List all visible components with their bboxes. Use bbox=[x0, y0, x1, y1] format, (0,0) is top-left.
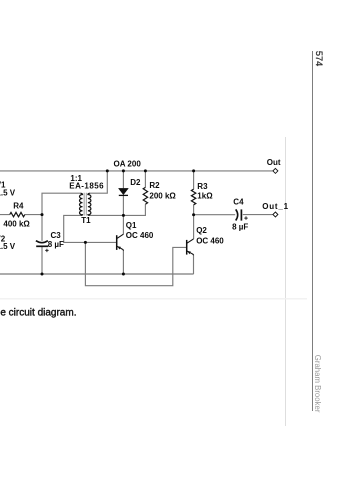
terminal Out bbox=[273, 168, 278, 173]
wire cross coupling to Q2 base bbox=[85, 242, 186, 285]
svg-text:Q2: Q2 bbox=[196, 226, 207, 235]
transistor Q2 bbox=[187, 239, 194, 255]
svg-text:D2: D2 bbox=[130, 178, 141, 187]
wire top rail bbox=[0, 170, 273, 172]
resistor R4 bbox=[10, 212, 25, 216]
svg-text:1.5 V: 1.5 V bbox=[0, 188, 16, 197]
svg-text:C4: C4 bbox=[233, 198, 244, 207]
junction node D2 top bbox=[122, 169, 125, 172]
wire primary bottom to Q1 base bbox=[64, 215, 116, 242]
svg-text:T1: T1 bbox=[81, 216, 91, 225]
resistor R2 bbox=[143, 187, 147, 204]
transistor Q1 bbox=[117, 234, 124, 250]
resistor R3 bbox=[191, 189, 195, 205]
svg-text:OC 460: OC 460 bbox=[196, 237, 224, 246]
faint column edge line bbox=[285, 137, 287, 426]
svg-text:Out_1: Out_1 bbox=[262, 202, 289, 211]
wire primary top link bbox=[42, 193, 81, 214]
capacitor C4 bbox=[236, 209, 248, 220]
wire Q1 emitter lead bbox=[122, 250, 124, 274]
wire C4 leads bbox=[194, 214, 273, 216]
svg-text:400 kΩ: 400 kΩ bbox=[3, 219, 30, 228]
junction node R4/C3 bbox=[41, 213, 44, 216]
svg-text:R4: R4 bbox=[13, 202, 24, 211]
svg-text:1kΩ: 1kΩ bbox=[197, 192, 213, 201]
svg-text:Q1: Q1 bbox=[126, 221, 137, 230]
wire C3 leads bbox=[41, 215, 43, 274]
svg-text:R2: R2 bbox=[149, 181, 160, 190]
junction node C3 bottom bbox=[41, 273, 44, 276]
wire Q2 collector lead bbox=[193, 215, 195, 239]
transformer T1 primary coil bbox=[79, 193, 82, 215]
junction node R3 top bbox=[192, 169, 195, 172]
svg-text:OA 200: OA 200 bbox=[114, 159, 142, 168]
svg-text:the circuit diagram.: the circuit diagram. bbox=[0, 308, 76, 319]
wire secondary top bbox=[90, 171, 108, 193]
wire secondary bottom node bbox=[90, 204, 146, 215]
junction node secondary top bbox=[106, 169, 109, 172]
junction node Q1 emitter rail bbox=[122, 273, 125, 276]
svg-text:1.5 V: 1.5 V bbox=[0, 242, 16, 251]
wire R2 top lead bbox=[144, 171, 146, 188]
terminal Out_1 bbox=[273, 212, 278, 217]
junction node base cross bbox=[84, 241, 87, 244]
wire bottom rail bbox=[0, 273, 194, 275]
wire Q1 collector lead bbox=[122, 215, 124, 234]
svg-text:EA-1856: EA-1856 bbox=[69, 181, 104, 190]
svg-text:200 kΩ: 200 kΩ bbox=[149, 191, 176, 200]
svg-text:C3: C3 bbox=[51, 231, 62, 240]
page border rule bbox=[312, 51, 314, 411]
svg-text:8 µF: 8 µF bbox=[232, 222, 248, 231]
figure bottom edge band bbox=[0, 298, 307, 300]
svg-text:8 µF: 8 µF bbox=[48, 240, 64, 249]
junction node R2 top bbox=[144, 169, 147, 172]
junction node R3 bottom bbox=[192, 213, 195, 216]
wire R4 leads bbox=[0, 214, 42, 216]
svg-text:Graham Brooker: Graham Brooker bbox=[313, 355, 322, 413]
svg-text:R3: R3 bbox=[197, 182, 208, 191]
capacitor C3 bbox=[36, 241, 49, 252]
diode D2 bbox=[119, 188, 129, 195]
svg-text:Out: Out bbox=[267, 158, 281, 167]
wire R3 leads bbox=[193, 171, 195, 215]
junction node D2 bottom bbox=[122, 214, 125, 217]
wire D2 cathode bbox=[122, 196, 124, 216]
svg-text:574: 574 bbox=[314, 51, 324, 66]
wire Q2 emitter lead bbox=[193, 255, 195, 274]
transformer T1 core bbox=[84, 193, 86, 216]
svg-text:OC 460: OC 460 bbox=[126, 231, 154, 240]
wire D2 anode bbox=[122, 171, 124, 188]
transformer T1 secondary coil bbox=[88, 193, 91, 215]
